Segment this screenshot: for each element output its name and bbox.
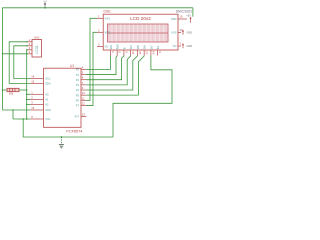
svg-text:15: 15 (31, 79, 34, 83)
wire LCD left pin1 to IC P6 (86, 18, 97, 100)
svg-text:13: 13 (145, 51, 149, 55)
wire VDD row from rail (3, 109, 31, 111)
svg-text:P5: P5 (76, 93, 80, 97)
IC pin INT 13 (75, 113, 87, 119)
svg-text:10: 10 (82, 91, 85, 95)
IC pin P2 6 (76, 76, 87, 82)
svg-text:SV1: SV1 (34, 35, 40, 39)
IC pin P5 10 (76, 91, 87, 97)
IC pin P6 11 (76, 96, 87, 102)
IC pin SCL 14 (31, 74, 51, 80)
IC pin P3 7 (76, 81, 87, 87)
wire SDA from connector pin1 to IC (9, 42, 31, 84)
connector pin 4 (26, 50, 32, 54)
IC pin A2 3 (31, 100, 49, 106)
wire A1 from GND column (26, 99, 31, 101)
LCD display DIS1 box (103, 14, 178, 50)
svg-text:D6: D6 (143, 45, 147, 49)
svg-text:A2: A2 (45, 103, 49, 107)
svg-text:VSS: VSS (105, 17, 111, 21)
svg-text:10k: 10k (9, 91, 14, 95)
wire LCD bottom pin 6 to IC P5 (86, 56, 144, 96)
svg-text:+5V: +5V (186, 15, 191, 18)
svg-text:LCD1: LCD1 (35, 45, 39, 53)
svg-text:VO: VO (173, 44, 177, 48)
svg-text:14: 14 (151, 51, 155, 55)
svg-text:16: 16 (31, 106, 34, 110)
svg-text:P4: P4 (76, 88, 80, 92)
svg-text:SDA: SDA (45, 82, 51, 86)
svg-text:DMC20261: DMC20261 (176, 9, 192, 13)
svg-text:D7: D7 (149, 45, 153, 49)
LCD left pin 2 VDD (97, 29, 110, 35)
LCD bottom pin 5 D5 (136, 45, 142, 56)
svg-text:D4: D4 (129, 45, 133, 49)
wire GND column lower drop to rail (22, 118, 113, 137)
LCD left pin 3 VO (97, 43, 108, 49)
svg-text:11: 11 (82, 96, 85, 100)
svg-text:+5V: +5V (43, 1, 47, 3)
connector SV1 box (32, 40, 42, 58)
wire +5V connector pin4 to left rail (2, 53, 27, 55)
resistor R1 (2, 88, 28, 91)
LCD bottom pin 8 BL (156, 45, 162, 55)
svg-text:P3: P3 (76, 83, 80, 87)
wire +5V rail top and left (3, 8, 193, 110)
svg-text:RS: RS (109, 45, 113, 49)
LCD hatched display area (108, 24, 169, 42)
LCD bottom pin 7 D7 (149, 45, 155, 56)
svg-text:RW: RW (116, 44, 120, 49)
wire LCD bottom pin 2 to IC P1 (86, 56, 117, 75)
wire LCD bottom pin7 to ground rail (113, 56, 172, 138)
svg-text:D5: D5 (136, 45, 140, 49)
svg-text:VOL: VOL (45, 117, 51, 121)
wire LCD left pin2 to IC P7 (86, 32, 97, 105)
svg-text:VDD: VDD (45, 108, 51, 112)
junction ground rail at ground symbol (61, 136, 63, 138)
LCD bottom pin 1 RS (109, 45, 115, 56)
IC pin P1 5 (76, 71, 87, 77)
svg-text:12: 12 (82, 101, 85, 105)
svg-text:P1: P1 (76, 73, 80, 77)
svg-text:VSS: VSS (171, 31, 177, 35)
wire VOL row (13, 118, 31, 120)
svg-text:GND: GND (187, 45, 193, 48)
svg-text:PCF8574: PCF8574 (66, 130, 82, 134)
IC pin VDD 16 (31, 106, 51, 112)
wire +5V drop to LCD VDD symbol (192, 8, 194, 17)
wire LCD bottom pin 1 to IC P0 (86, 56, 110, 70)
svg-text:P0: P0 (76, 68, 80, 72)
svg-text:E: E (122, 47, 126, 49)
svg-text:GND: GND (187, 32, 193, 35)
svg-text:A0: A0 (45, 93, 49, 97)
svg-text:INT: INT (75, 115, 80, 119)
svg-text:LCD 20x2: LCD 20x2 (130, 16, 151, 21)
svg-text:13: 13 (82, 113, 85, 117)
IC pin VOL 8 (31, 115, 51, 121)
wire SCL from connector pin2 to IC (14, 46, 31, 79)
wire LCD bottom pin 4 to IC P3 (86, 56, 130, 85)
wire A0 from GND column (26, 94, 31, 96)
IC pin P4 9 (76, 86, 87, 92)
svg-text:VDD: VDD (105, 31, 111, 35)
wire VDD to VOL drop (12, 109, 14, 119)
wire A2 from GND column (26, 104, 31, 106)
IC pin P0 4 (76, 65, 87, 71)
connector pin 3 (26, 46, 32, 50)
svg-text:P2: P2 (76, 78, 80, 82)
svg-text:DIS1: DIS1 (104, 10, 111, 14)
LCD bottom pin 4 D4 (129, 45, 135, 56)
IC pin A0 1 (31, 90, 49, 96)
IC pin P7 12 (76, 101, 87, 107)
svg-text:VDD: VDD (171, 17, 177, 21)
connector pin 1 (26, 38, 32, 42)
svg-text:U1: U1 (70, 64, 74, 68)
supply +5V symbol (43, 1, 47, 9)
LCD bottom pin 2 RW (116, 44, 122, 55)
wire LCD bottom pin 5 to IC P4 (86, 56, 137, 91)
svg-text:11: 11 (131, 51, 135, 54)
svg-text:SCL: SCL (45, 77, 51, 81)
svg-text:BL: BL (156, 45, 160, 49)
connector pin 2 (26, 42, 32, 46)
LCD right pin VDD with +5V arrow (171, 15, 192, 23)
IC pin SDA 15 (31, 79, 51, 85)
svg-text:12: 12 (138, 51, 142, 55)
IC pin A1 2 (31, 95, 49, 101)
svg-text:P6: P6 (76, 99, 80, 103)
LCD bottom pin 6 D6 (143, 45, 149, 56)
svg-text:15: 15 (180, 15, 183, 19)
svg-text:A1: A1 (45, 98, 49, 102)
ground symbol GND (59, 136, 64, 148)
svg-text:P7: P7 (76, 104, 80, 108)
wire LCD bottom pin 3 to IC P2 (86, 56, 124, 80)
LCD left pin 1 VSS (97, 15, 110, 21)
wire GND column from connector pin3 (26, 50, 28, 119)
LCD bottom pin 3 E (122, 47, 128, 55)
svg-text:14: 14 (31, 74, 34, 78)
LCD right pin VO with GND symbol (173, 42, 193, 49)
IC U1 PCF8574 box (44, 68, 82, 127)
LCD right pin VSS with GND symbol (171, 28, 192, 35)
